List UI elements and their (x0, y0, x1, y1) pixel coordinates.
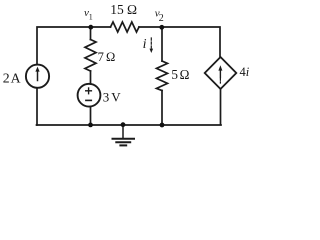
svg-text:Ω: Ω (127, 2, 137, 17)
node v2 (159, 25, 164, 30)
junction 5Ω bottom (160, 123, 165, 128)
wire 5Ω to bottom (161, 91, 163, 126)
junction ground (121, 122, 126, 127)
wire v2 to 5Ω resistor (161, 27, 163, 61)
label v1 (84, 7, 93, 21)
junction 3V bottom (88, 123, 93, 128)
node v1 (88, 25, 93, 30)
current arrow i (dashed) (150, 38, 154, 53)
label 7 Ω (98, 50, 115, 64)
dependent source 4i (diamond) (205, 57, 237, 89)
resistor 15Ω (111, 22, 140, 32)
current source 2A (26, 65, 49, 88)
svg-text:15: 15 (110, 2, 124, 17)
wire 3V to bottom (90, 107, 92, 126)
svg-text:2 A: 2 A (3, 70, 21, 85)
label 2 A (3, 70, 21, 85)
ground (113, 125, 135, 145)
wire bottom (37, 124, 222, 126)
label 5 Ω (171, 67, 189, 82)
svg-text:4i: 4i (240, 65, 250, 79)
svg-text:5 Ω: 5 Ω (171, 67, 189, 82)
wire top-left segment (corner to v1) (37, 27, 111, 65)
label i (143, 37, 147, 52)
label 3 V (103, 90, 122, 105)
label v2 (155, 7, 164, 23)
svg-text:1: 1 (89, 12, 93, 21)
svg-text:i: i (143, 37, 147, 52)
svg-text:3 V: 3 V (103, 90, 122, 105)
wire left lower segment (36, 88, 38, 125)
voltage source 3V (78, 84, 101, 107)
resistor 5Ω (157, 61, 168, 91)
label 4i (240, 65, 250, 79)
wire 7Ω to 3V source (90, 71, 92, 84)
wire v1 to 7Ω resistor (90, 27, 92, 40)
resistor 7Ω (85, 40, 96, 72)
label 15 Ω (110, 2, 137, 17)
wire top-right segment (resistor to corner) (139, 27, 220, 58)
svg-text:7 Ω: 7 Ω (98, 50, 115, 64)
svg-text:2: 2 (159, 13, 164, 24)
wire right lower segment (220, 89, 222, 125)
